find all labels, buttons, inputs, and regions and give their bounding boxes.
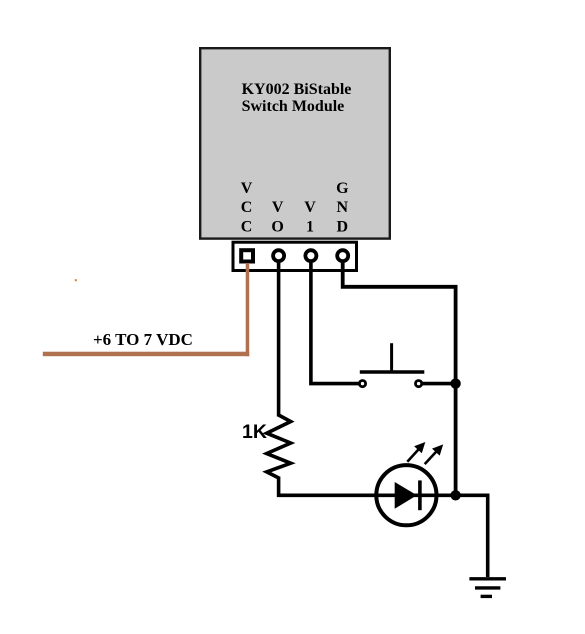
wire VCC brown vertical [246, 263, 250, 356]
pin header strip [233, 242, 357, 270]
ground symbol bar 2 [475, 586, 500, 589]
pin 4 GND circle pad [337, 250, 348, 261]
LED D1 light arrow 2 [425, 444, 444, 464]
resistor R1 [267, 415, 291, 478]
svg-text:VCC: VCC [241, 180, 253, 236]
pushbutton S1 bar [360, 370, 425, 373]
pin 1 VCC square pad [241, 250, 253, 261]
svg-text:KY002 BiStable: KY002 BiStable [242, 81, 352, 98]
wire VCC brown horizontal [43, 352, 249, 357]
stray orange speck artifact [75, 279, 77, 281]
svg-text:+6 TO 7 VDC: +6 TO 7 VDC [93, 330, 193, 349]
ground symbol bar 1 [469, 577, 506, 580]
pin 2 VO circle pad [273, 250, 284, 261]
LED D1 anode triangle [395, 482, 417, 509]
wire GND pin right rail [343, 262, 456, 495]
wire resistor to LED node [279, 477, 456, 496]
ground symbol bar 3 [481, 595, 492, 598]
LED D1 circle [376, 465, 436, 525]
junction node LED/rail [450, 490, 460, 500]
pushbutton S1 terminal right [416, 381, 422, 387]
wire VO pin to resistor [277, 262, 281, 417]
wire LED node to ground [456, 495, 488, 577]
LED D1 light arrow 1 [407, 442, 425, 462]
junction node switch/rail [450, 378, 460, 388]
module U1 KY002 BiStable Switch Module body [200, 48, 390, 238]
wire switch to right rail [422, 382, 456, 386]
LED D1 cathode bar [418, 480, 422, 510]
pushbutton S1 terminal left [359, 381, 365, 387]
pin 3 V1 circle pad [305, 250, 316, 261]
svg-text:GND: GND [336, 180, 349, 236]
pushbutton S1 stem [390, 343, 393, 372]
svg-text:Switch Module: Switch Module [242, 98, 345, 115]
svg-text:1K: 1K [242, 421, 267, 443]
wire V1 pin to switch [311, 262, 359, 384]
